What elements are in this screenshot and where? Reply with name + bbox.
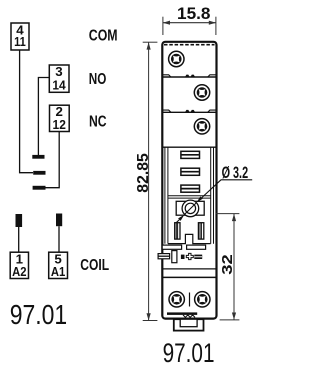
vertical slot right <box>198 223 203 239</box>
zigzag W <box>183 315 195 318</box>
svg-text:97.01: 97.01 <box>163 338 215 366</box>
terminal box 2/12 (NC) <box>50 104 70 132</box>
dimension 15.8 line with arrows <box>163 17 216 35</box>
section line above bottom block <box>163 268 217 270</box>
svg-text:14: 14 <box>52 77 66 92</box>
dimension 32 (vertical, right) <box>216 214 240 320</box>
wire NC: from box 2/12 down then left to bottom contact bar <box>45 132 59 188</box>
clip row: center latch element <box>181 253 202 259</box>
bottom screw left <box>169 292 184 307</box>
contact bar middle (COM contact) <box>33 171 45 175</box>
DIN foot notch <box>180 319 197 327</box>
shoulder line <box>163 146 217 148</box>
svg-text:12: 12 <box>53 117 66 132</box>
svg-text:A1: A1 <box>51 264 65 279</box>
screw divider <box>189 293 191 307</box>
svg-text:Ø 3.2: Ø 3.2 <box>222 163 249 182</box>
coil clamp tick A1 <box>56 214 62 227</box>
inner wall lines <box>164 147 166 244</box>
bottom screw right <box>195 292 210 307</box>
DIN rail foot <box>174 319 204 330</box>
coil clamp tick A2 <box>16 214 23 227</box>
svg-text:15.8: 15.8 <box>177 4 211 23</box>
division line 2 with tabs <box>163 110 217 112</box>
mounting plate with hole <box>176 201 204 215</box>
division line 1 with tabs <box>163 75 217 77</box>
vertical slot left <box>175 223 180 239</box>
ledge right under mid section <box>187 245 206 249</box>
dark bar above bottom edge <box>167 312 197 315</box>
annotation underline <box>221 179 252 181</box>
wire COM: from box 4/11 down then right to middle contact bar <box>20 50 33 173</box>
clip row: left hatched bar <box>158 254 170 259</box>
screw terminal 2 <box>194 85 209 100</box>
svg-text:NC: NC <box>89 113 107 130</box>
bottom block top line <box>163 276 217 278</box>
svg-text:A2: A2 <box>12 264 26 279</box>
hole Ø3.2 <box>185 203 195 213</box>
svg-text:82.85: 82.85 <box>135 153 152 193</box>
svg-text:11: 11 <box>14 34 26 49</box>
terminal box 3/14 (NO) <box>49 64 69 92</box>
screw terminal 1 <box>169 51 184 66</box>
socket body outline <box>162 42 216 319</box>
terminal box 5/A1 <box>49 252 68 280</box>
wire A2 <box>18 227 20 252</box>
clip row: vertical rect <box>172 251 177 263</box>
svg-text:NO: NO <box>89 71 107 88</box>
contact bar top (NO contact) <box>32 155 44 159</box>
svg-text:COIL: COIL <box>80 257 109 274</box>
wire A1 <box>58 226 60 252</box>
plate lines <box>168 195 211 197</box>
leader arrow lower-left <box>176 215 184 223</box>
top vent dashed strip <box>164 44 215 46</box>
screw terminal 3 <box>194 119 209 134</box>
dimension 82.85 (vertical, left) <box>143 42 158 320</box>
svg-text:COM: COM <box>89 27 118 44</box>
leader line Ø3.2 upper segment with arrow <box>197 180 221 203</box>
ledge left under mid section <box>162 245 181 249</box>
bottom notch of mid section <box>168 234 211 243</box>
relay blade slot 3 <box>181 185 200 192</box>
svg-text:97.01: 97.01 <box>10 300 67 331</box>
wire NO: from box 3/14 left side, left and down to top contact bar <box>38 78 49 156</box>
relay blade slot 1 <box>181 151 200 158</box>
terminal box 1/A2 <box>10 252 28 280</box>
terminal box 4/11 (COM) <box>11 23 29 50</box>
relay blade slot 2 <box>181 168 200 175</box>
contact bar bottom (NC contact) <box>33 186 46 190</box>
leader chord through hole <box>184 203 196 215</box>
svg-text:32: 32 <box>220 254 236 275</box>
hole boss circle <box>182 200 199 217</box>
